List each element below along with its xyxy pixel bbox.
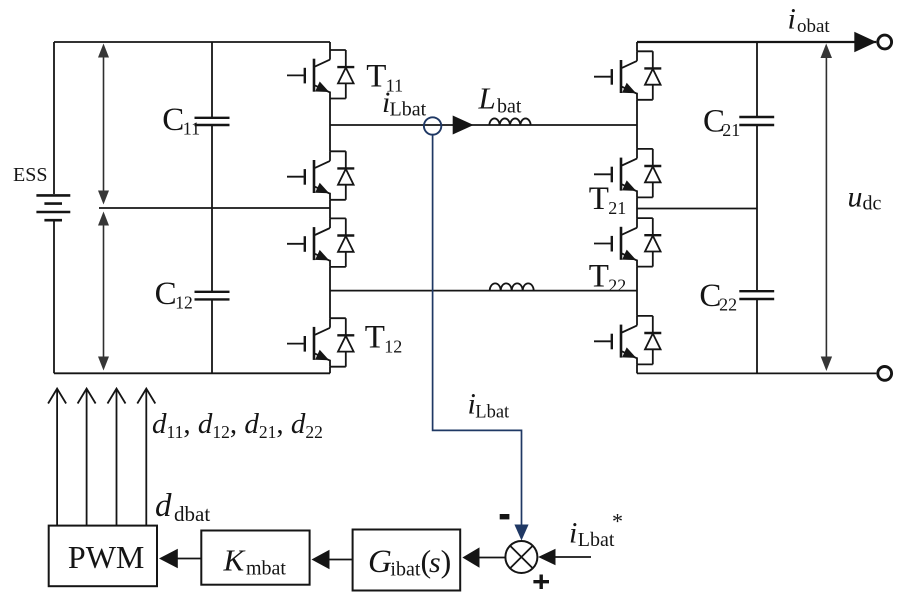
transistor left-leg second IGBT bbox=[287, 151, 354, 200]
svg-text:C: C bbox=[162, 102, 184, 138]
svg-text:11: 11 bbox=[183, 119, 200, 139]
svg-text:22: 22 bbox=[719, 295, 737, 315]
svg-text:obat: obat bbox=[797, 16, 830, 37]
svg-text:): ) bbox=[441, 543, 452, 579]
svg-text:12: 12 bbox=[175, 293, 193, 313]
arrow: iLbat direction bbox=[453, 116, 474, 135]
wire: Kmbat to PWM bbox=[178, 558, 202, 560]
terminal: output - bbox=[878, 367, 892, 381]
summing junction bbox=[505, 541, 537, 573]
svg-text:Lbat: Lbat bbox=[390, 99, 427, 121]
svg-text:i: i bbox=[569, 517, 577, 550]
svg-text:s: s bbox=[429, 546, 441, 579]
arrow: into Kmbat box bbox=[312, 550, 330, 569]
svg-text:T: T bbox=[365, 319, 385, 355]
svg-text:ibat: ibat bbox=[390, 559, 420, 581]
transistor right-leg first IGBT bbox=[594, 51, 661, 100]
svg-text:K: K bbox=[223, 543, 247, 578]
arrow: iLbat* into junction bbox=[538, 549, 555, 566]
wire: iLbat line (switch node to right leg) bbox=[330, 124, 637, 126]
transistor T11 (IGBT + diode) bbox=[287, 50, 354, 99]
measurement double-arrow udc bbox=[821, 44, 833, 372]
svg-text:22: 22 bbox=[608, 276, 626, 296]
inductor lower coil bbox=[490, 283, 534, 290]
capacitor C21 bbox=[739, 42, 774, 209]
arrow: iobat output bbox=[854, 32, 876, 53]
wire: iLbat* input bbox=[555, 556, 591, 558]
svg-text:G: G bbox=[368, 544, 392, 580]
svg-text:dbat: dbat bbox=[174, 502, 210, 526]
wire: bottom bus right half bbox=[637, 372, 876, 374]
wire: top bus right half bbox=[637, 41, 876, 43]
svg-text:T: T bbox=[589, 181, 609, 217]
svg-text:T: T bbox=[589, 259, 609, 295]
measurement double-arrow upper (across C11) bbox=[98, 44, 109, 205]
svg-text:u: u bbox=[848, 181, 863, 214]
transistor right-leg fourth IGBT bbox=[594, 316, 661, 365]
label plus bbox=[533, 575, 549, 590]
svg-text:C: C bbox=[155, 276, 177, 312]
arrow: into Gibat box bbox=[462, 547, 479, 567]
left leg vertical wires bbox=[329, 42, 331, 373]
wire: junction to Gibat bbox=[479, 557, 506, 559]
svg-text:12: 12 bbox=[384, 336, 402, 356]
arrow: into PWM box bbox=[159, 549, 178, 568]
label minus bbox=[500, 514, 510, 519]
svg-text:mbat: mbat bbox=[246, 558, 286, 580]
gate drive arrow 1 bbox=[48, 389, 66, 526]
wire: ESS lower lead bbox=[53, 221, 55, 373]
battery ESS bbox=[36, 195, 70, 220]
svg-text:i: i bbox=[788, 3, 796, 36]
block Kmbat bbox=[201, 531, 309, 585]
svg-text:Lbat: Lbat bbox=[578, 529, 615, 551]
gate drive arrow 4 bbox=[137, 389, 155, 526]
svg-text:bat: bat bbox=[497, 96, 522, 118]
svg-text:dc: dc bbox=[863, 193, 882, 215]
gate drive arrow 2 bbox=[78, 389, 96, 526]
inductor Lbat coil bbox=[489, 118, 530, 125]
wire: mid rail left bbox=[99, 207, 330, 209]
right leg vertical wires bbox=[636, 42, 638, 373]
wire: Gibat to Kmbat bbox=[329, 559, 353, 561]
transistor T22 (IGBT + diode) bbox=[594, 218, 661, 267]
transistor T12 (IGBT + diode) bbox=[287, 318, 354, 367]
wire: mid rail right bbox=[637, 208, 757, 210]
wire: ESS upper lead bbox=[53, 42, 55, 194]
gate drive arrow 3 bbox=[108, 389, 126, 526]
svg-text:*: * bbox=[612, 509, 623, 534]
current sensing tap (blue circle) bbox=[424, 117, 441, 134]
wire: top bus left half bbox=[54, 41, 330, 43]
measurement double-arrow lower (across C12) bbox=[98, 212, 109, 371]
svg-text:21: 21 bbox=[722, 120, 740, 140]
transistor T21 (IGBT + diode) bbox=[594, 149, 661, 198]
arrow: blue feedback into summing junction bbox=[514, 525, 528, 541]
block PWM bbox=[49, 526, 157, 587]
wire: bottom bus left half bbox=[54, 372, 330, 374]
capacitor C11 bbox=[195, 42, 230, 208]
transistor left-leg third IGBT bbox=[287, 218, 354, 267]
svg-text:d: d bbox=[155, 488, 172, 524]
block Gibat(s) bbox=[353, 530, 461, 591]
svg-text:L: L bbox=[478, 81, 496, 116]
terminal: output + bbox=[878, 35, 892, 49]
svg-text:21: 21 bbox=[608, 198, 626, 218]
svg-text:ESS: ESS bbox=[13, 164, 47, 186]
capacitor C22 bbox=[739, 209, 774, 374]
capacitor C12 bbox=[195, 208, 230, 373]
wire: lower inter-leg line bbox=[330, 290, 637, 292]
wire: blue iLbat feedback bbox=[433, 134, 522, 526]
svg-text:d11, d12, d21, d22: d11, d12, d21, d22 bbox=[152, 408, 323, 442]
svg-text:PWM: PWM bbox=[68, 539, 144, 575]
svg-text:Lbat: Lbat bbox=[475, 402, 510, 422]
